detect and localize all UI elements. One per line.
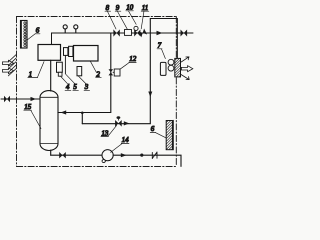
louver 6b thick right edge bbox=[172, 121, 174, 150]
label 8 bbox=[105, 4, 116, 29]
main discharge pipe from compressor bbox=[52, 33, 194, 45]
valve 13 bowtie bbox=[115, 120, 122, 127]
lower block 4 bbox=[57, 62, 63, 72]
inlet line with valve (left edge) bbox=[1, 98, 40, 100]
solenoid valve 12 (hourglass on vertical line) bbox=[109, 69, 114, 75]
label 6 (top-left) bbox=[28, 27, 40, 40]
valve 11 slanted bowtie bbox=[138, 28, 147, 37]
flow arrow on main pipe bbox=[157, 31, 163, 35]
gauge G1 bbox=[63, 25, 67, 29]
louver 6 thick left edge bbox=[20, 21, 22, 49]
svg-text:10: 10 bbox=[126, 3, 134, 11]
svg-text:15: 15 bbox=[24, 103, 32, 111]
svg-text:3: 3 bbox=[84, 83, 89, 91]
outlet louver 6 (bottom-right, hatched) bbox=[166, 121, 172, 150]
valve 13 stem and cap bbox=[117, 119, 119, 120]
arrow on discharge line bbox=[121, 153, 127, 157]
gauge G2 stem bbox=[75, 29, 77, 33]
air inflow arrow upper (hollow) bbox=[3, 60, 14, 66]
louver 6 inner coils bbox=[24, 22, 26, 47]
label 5 bbox=[66, 74, 79, 91]
device 9 (inline rectangle) bbox=[125, 30, 132, 36]
label 6 (bottom-right) bbox=[150, 125, 166, 138]
exhaust arrow right bbox=[181, 66, 192, 72]
svg-text:6: 6 bbox=[151, 125, 155, 133]
foot of lower block bbox=[58, 72, 62, 76]
valve 10 bowtie bbox=[134, 30, 140, 37]
svg-text:12: 12 bbox=[129, 55, 137, 63]
svg-text:2: 2 bbox=[96, 70, 100, 78]
arrow into vessel on y=112.5 line bbox=[61, 110, 67, 114]
gauge G1 stem bbox=[64, 29, 66, 33]
check valve bbox=[152, 152, 157, 159]
arrow into vessel (inlet) bbox=[31, 97, 37, 101]
arrow down on blowdown line bbox=[148, 92, 152, 98]
exhaust louver (hatched) bbox=[175, 58, 181, 77]
label 1 bbox=[28, 62, 44, 79]
drain line to pump bbox=[51, 154, 102, 156]
valve 12 actuator link bbox=[113, 71, 114, 73]
block 3 bbox=[77, 67, 82, 76]
pump discharge line bbox=[113, 155, 181, 166]
solenoid branch line x=110.8 bbox=[58, 33, 111, 113]
label 15 bbox=[24, 103, 41, 129]
valve 8 (bowtie on pipe) bbox=[113, 29, 119, 36]
vessel seam lines bbox=[40, 97, 58, 143]
vessel bottom stub bbox=[50, 150, 52, 155]
svg-text:6: 6 bbox=[36, 27, 40, 35]
receiver vessel 15 bbox=[40, 91, 58, 151]
inlet valve bowtie bbox=[4, 96, 10, 102]
svg-text:8: 8 bbox=[106, 4, 110, 12]
svg-text:13: 13 bbox=[101, 129, 109, 137]
exhaust arrow up-right bbox=[181, 57, 189, 62]
label 10 bbox=[126, 3, 136, 24]
svg-text:5: 5 bbox=[73, 83, 77, 91]
receiver vessel 15 top stub bbox=[50, 60, 52, 91]
svg-text:4: 4 bbox=[66, 83, 70, 91]
outlet valve (right edge) bbox=[181, 30, 188, 37]
valve 12 actuator box bbox=[114, 69, 120, 76]
svg-text:1: 1 bbox=[29, 70, 32, 78]
valve 10 actuator circle bbox=[134, 26, 138, 30]
drain valve bowtie bbox=[59, 152, 66, 158]
label 11 bbox=[141, 4, 149, 29]
branch stub junction to recirculation line bbox=[81, 113, 83, 124]
svg-text:7: 7 bbox=[158, 41, 162, 49]
wall hatch at air inlet bbox=[8, 55, 16, 76]
vertical rod 5 bbox=[64, 55, 66, 73]
vent duct to exhaust louver bbox=[150, 19, 177, 59]
junction dot bbox=[140, 154, 143, 157]
pump 14 tail bbox=[102, 159, 106, 162]
exhaust arrow down-right bbox=[181, 75, 189, 80]
blowdown line x=150 down to recirculation line bbox=[82, 33, 150, 124]
label 13 bbox=[101, 125, 117, 137]
fan impeller circles bbox=[168, 59, 174, 65]
motor 2 bbox=[74, 46, 99, 62]
exhaust unit box 7 bbox=[160, 62, 166, 75]
arrow right on recirculation line bbox=[124, 121, 129, 125]
air inflow arrow lower (hollow) bbox=[3, 68, 14, 74]
compressor 1 bbox=[38, 45, 61, 61]
label 9 bbox=[115, 4, 127, 29]
coupling block B bbox=[69, 46, 73, 56]
gauge G2 bbox=[74, 25, 78, 29]
svg-text:9: 9 bbox=[116, 4, 120, 12]
label 4 bbox=[61, 77, 71, 92]
label 2 bbox=[90, 61, 101, 78]
label 12 bbox=[120, 55, 137, 69]
enclosure dash-dot border bbox=[17, 17, 177, 167]
junction dot at branch bbox=[81, 112, 84, 115]
label 7 bbox=[157, 41, 165, 58]
label 14 bbox=[111, 136, 130, 152]
coupling block A bbox=[64, 48, 68, 56]
inlet air louver 6 (top-left) bbox=[21, 21, 28, 49]
svg-text:11: 11 bbox=[142, 4, 148, 12]
label 3 bbox=[78, 76, 89, 91]
pump 14 bbox=[102, 150, 113, 161]
svg-text:14: 14 bbox=[122, 136, 130, 144]
